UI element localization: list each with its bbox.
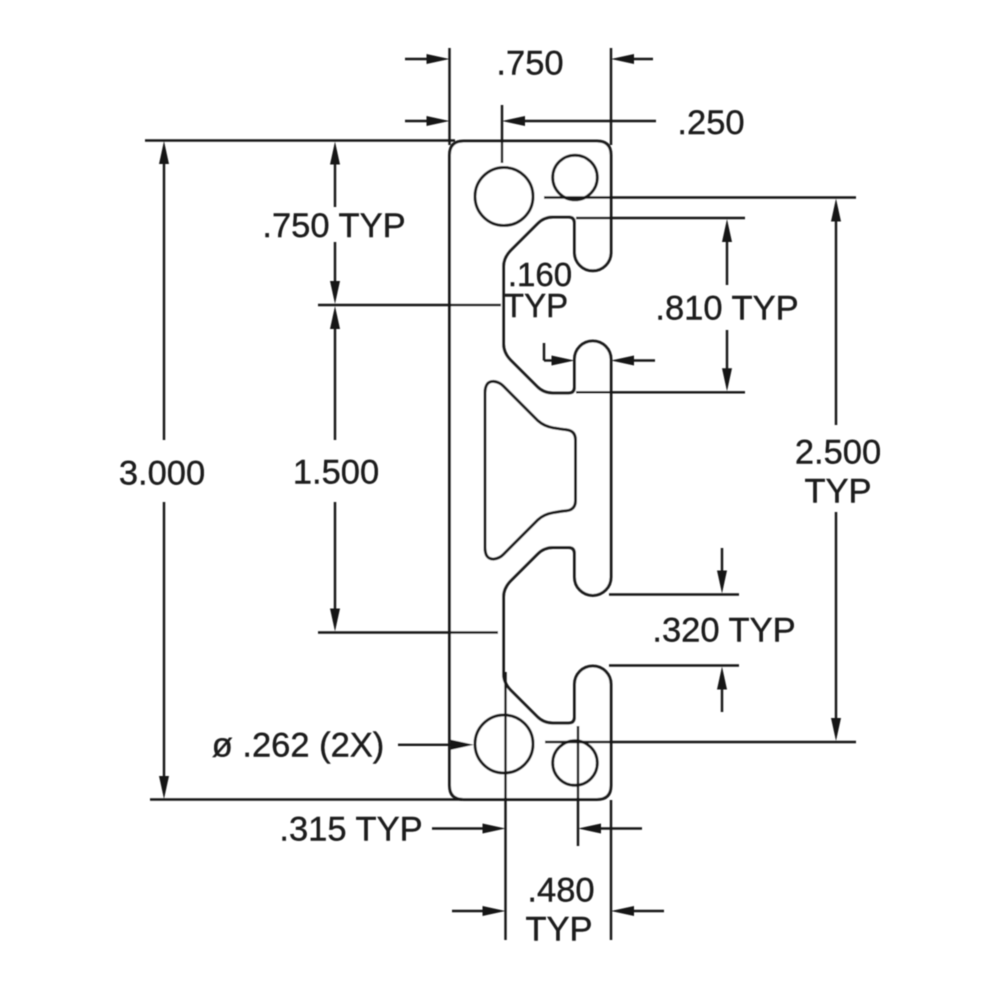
hole bottom-left [475, 715, 533, 773]
centerline top slot [318, 304, 501, 306]
svg-text:.810 TYP: .810 TYP [655, 289, 798, 327]
extension line .480 left [504, 672, 506, 940]
extension line 3.000 bottom [150, 798, 462, 800]
centerline lower right hole [577, 726, 579, 846]
extrusion profile outline [450, 141, 612, 800]
dimension 3.000 overall height [159, 141, 169, 164]
svg-text:.250: .250 [677, 104, 744, 142]
extension line 3.000 top [145, 139, 455, 141]
svg-text:ø .262 (2X): ø .262 (2X) [212, 726, 385, 764]
dimension .810 TYP slot depth [722, 219, 732, 242]
extension line .320 bottom [609, 664, 739, 666]
svg-text:2.500: 2.500 [795, 433, 881, 471]
svg-text:TYP: TYP [804, 472, 871, 510]
center trapezoid cavity [485, 381, 576, 559]
extension line .320 top [609, 593, 739, 595]
extension line 2.500 bottom [545, 741, 856, 743]
svg-text:.315 TYP: .315 TYP [279, 810, 422, 848]
dimension 1.500 slot to slot [330, 306, 340, 329]
svg-text:1.500: 1.500 [293, 453, 379, 491]
centerline bottom slot [318, 631, 498, 633]
svg-text:TYP: TYP [525, 910, 592, 948]
dimension .750 top width [405, 58, 430, 60]
dimension .320 TYP slot opening [721, 548, 723, 573]
extension line .480 right face extended [610, 800, 612, 940]
extension line .810 bottom [576, 391, 745, 393]
hole top-left [475, 168, 533, 226]
extension line .250 hole center [501, 105, 503, 163]
extension line right edge top [610, 48, 612, 145]
svg-text:.750 TYP: .750 TYP [262, 207, 405, 245]
extension line .810 top [576, 217, 745, 219]
svg-text:3.000: 3.000 [119, 454, 205, 492]
hole top-right [553, 155, 598, 200]
dimension .750 TYP slot centerline offset [330, 142, 340, 165]
hole bottom-right [553, 741, 598, 786]
svg-text:.480: .480 [527, 871, 594, 909]
svg-text:TYP: TYP [504, 287, 568, 324]
svg-text:.750: .750 [496, 44, 563, 82]
dimension .480 TYP slot depth horizontal [452, 910, 486, 912]
dimension .250 hole offset [405, 120, 430, 122]
extension line 2.500 top [544, 196, 856, 198]
extension line left edge top [448, 48, 450, 145]
dimension 2.500 TYP hole spacing [831, 199, 841, 222]
svg-text:.320 TYP: .320 TYP [652, 611, 795, 649]
